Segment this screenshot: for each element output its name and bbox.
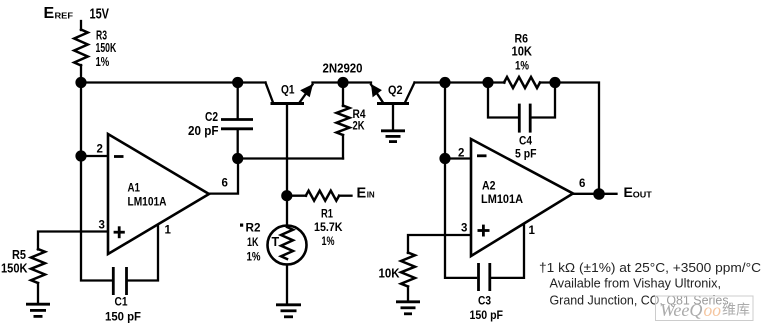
transistor Q2 collector lead [405, 83, 415, 103]
wire R5 to ground [37, 283, 39, 304]
svg-text:A1: A1 [128, 181, 141, 195]
svg-text:E: E [624, 184, 633, 200]
wire thermistor to ground [286, 265, 288, 305]
capacitor C4 right plate [529, 104, 532, 133]
thermistor R2 circle [268, 226, 307, 265]
capacitor C2 bottom plate [221, 127, 253, 130]
wire R1 to E_IN terminal [339, 195, 351, 197]
wire pin2 node down to C1 (crosses pin3 wire) [81, 156, 111, 281]
transistor Q2 emitter lead [371, 85, 383, 103]
op-amp A2 triangle [471, 139, 573, 256]
resistor R4 [337, 106, 350, 136]
svg-text:15V: 15V [90, 7, 110, 23]
wire rail to R6 left node [445, 81, 488, 83]
svg-text:6: 6 [579, 178, 585, 190]
svg-text:LM101A: LM101A [481, 192, 523, 206]
transistor Q1 emitter lead [300, 85, 313, 103]
junction Q2 collector / A2 pin2 rail [439, 77, 450, 88]
svg-text:R2: R2 [246, 221, 261, 235]
capacitor C2 branch wire lower [237, 129, 239, 159]
svg-text:2K: 2K [353, 119, 365, 133]
transistor Q1 emitter arrow [300, 84, 313, 97]
svg-text:150K: 150K [1, 262, 28, 276]
watermark box [656, 296, 754, 321]
wire C4 left branch [488, 83, 518, 118]
svg-text:5 pF: 5 pF [515, 147, 537, 161]
svg-text:E: E [44, 5, 55, 22]
svg-text:C2: C2 [205, 110, 218, 124]
wire A2 pin 3 to 10K resistor [408, 235, 471, 253]
R2 footnote mark [240, 224, 243, 227]
junction output node [593, 188, 605, 200]
transistor Q1 collector lead [266, 83, 274, 103]
A1 minus input sign [114, 155, 124, 158]
wire node to R1 [287, 195, 306, 197]
ground under Q2 base [381, 131, 405, 142]
ground under R5 [26, 304, 50, 316]
resistor 10K [401, 253, 415, 287]
capacitor C1 left plate [112, 267, 115, 295]
junction Q1 base / R1 / R2 input node [281, 190, 292, 201]
svg-text:6: 6 [222, 178, 228, 190]
thermistor R2 element [281, 227, 293, 259]
svg-text:C4: C4 [519, 134, 532, 148]
svg-text:1%: 1% [322, 234, 335, 248]
junction top rail / C2 [232, 77, 243, 88]
op-amp A1 triangle [108, 134, 209, 254]
capacitor C2 top plate [221, 118, 253, 121]
wire A1 pin 2 into op-amp [81, 155, 108, 157]
A2 plus input sign [478, 225, 490, 237]
svg-text:维库: 维库 [722, 303, 750, 319]
capacitor C4 left plate [518, 104, 521, 133]
wire top rail from R3 junction to Q1 collector [81, 81, 266, 83]
svg-text:C3: C3 [478, 294, 491, 308]
wire C4 right branch [532, 83, 555, 118]
svg-text:15.7K: 15.7K [314, 220, 343, 234]
wire center node to Q2 emitter [343, 81, 371, 83]
svg-text:R5: R5 [12, 248, 26, 262]
wire A2 pin2 node down [444, 83, 446, 159]
svg-text:C1: C1 [115, 295, 128, 309]
A1 plus input sign [114, 226, 125, 238]
wire node down to thermistor R2 [286, 196, 288, 226]
wire R3 bottom to summing rail [80, 65, 82, 83]
capacitor C3 left plate [477, 263, 480, 291]
wire E_REF to R3 top [80, 21, 82, 30]
svg-text:WeeQ: WeeQ [660, 300, 703, 320]
svg-text:10K: 10K [512, 45, 533, 59]
ground under 10K [396, 302, 420, 314]
ground under thermistor [276, 305, 301, 317]
transistor Q1 base bar [271, 102, 305, 105]
svg-text:2: 2 [97, 144, 103, 156]
wire R4 bottom to output wire [342, 135, 344, 159]
svg-text:150 pF: 150 pF [105, 310, 141, 324]
svg-text:R6: R6 [515, 32, 529, 46]
resistor R5 [31, 249, 45, 283]
wire A1 output pin 6 up to node [209, 159, 238, 194]
A2 minus input sign [477, 154, 487, 157]
transistor Q2 emitter arrow [371, 84, 382, 97]
svg-text:1: 1 [165, 225, 172, 237]
junction A1 output node [232, 153, 243, 164]
capacitor C1 right plate [125, 267, 128, 295]
wire pin2 node down to C3 (crosses pin3 wire) [445, 159, 476, 278]
wire left rail down to A1 pin 2 [80, 83, 82, 157]
svg-text:REF: REF [55, 12, 74, 21]
svg-text:3: 3 [99, 220, 105, 232]
wire feedback rail to output [555, 83, 599, 195]
junction emitters / R4 node [337, 77, 348, 88]
wire R6 to right node [540, 81, 555, 83]
wire 10K to ground [407, 287, 409, 302]
svg-text:E: E [357, 186, 367, 202]
svg-text:1%: 1% [96, 55, 110, 69]
junction R6/C4 right node [549, 77, 560, 88]
svg-text:2: 2 [458, 148, 464, 160]
wire C1 to pin 1 stub [128, 224, 158, 281]
svg-text:20 pF: 20 pF [188, 124, 219, 138]
wire Q1 base down to input node [286, 104, 288, 196]
wire C3 to pin 1 stub [492, 224, 525, 278]
svg-text:2N2920: 2N2920 [323, 62, 363, 76]
svg-text:1K: 1K [247, 235, 259, 249]
junction R6/C4 left node [482, 77, 493, 88]
svg-text:10K: 10K [379, 267, 400, 281]
junction A1 pin 2 node [75, 150, 86, 161]
svg-text:150 pF: 150 pF [470, 308, 504, 322]
svg-text:Q2: Q2 [388, 83, 403, 97]
watermark text [660, 300, 750, 320]
transistor Q2 base bar [377, 102, 409, 105]
junction A2 pin 2 node [439, 153, 450, 164]
svg-text:IN: IN [367, 191, 375, 200]
resistor R6 [504, 77, 540, 88]
wire A2 output to E_OUT [573, 193, 617, 195]
svg-text:R1: R1 [321, 207, 333, 221]
svg-text:OUT: OUT [633, 191, 652, 200]
svg-text:Q1: Q1 [281, 83, 295, 97]
resistor R1 [306, 191, 339, 201]
svg-text:Available from Vishay Ultronix: Available from Vishay Ultronix, [550, 277, 722, 291]
svg-text:T: T [272, 235, 280, 249]
wire to R6 [488, 81, 505, 83]
svg-text:1%: 1% [247, 250, 261, 264]
resistor R3 [74, 30, 88, 66]
capacitor C3 right plate [488, 263, 491, 291]
wire Q2 base to ground [392, 104, 394, 130]
svg-text:3: 3 [461, 223, 467, 235]
svg-text:A2: A2 [482, 179, 496, 193]
svg-text:LM101A: LM101A [128, 195, 167, 209]
wire Q1 emitter to center node [313, 81, 344, 83]
capacitor C2 branch wire upper [237, 83, 239, 120]
svg-text:1: 1 [529, 225, 536, 237]
svg-text:150K: 150K [96, 41, 117, 55]
wire A1 pin 3 to R5 [38, 232, 108, 250]
wire A2 pin 2 into op-amp [445, 157, 471, 159]
junction R3 / rail [75, 77, 86, 88]
wire Q2 collector to A2 rail [415, 81, 446, 83]
svg-text:oo: oo [704, 300, 722, 320]
svg-text:1%: 1% [515, 59, 529, 73]
wire output node to R4 bottom (crosses Q1 base) [238, 157, 343, 159]
wire node to R4 top [342, 83, 344, 107]
svg-text:†1 kΩ (±1%) at 25°C, +3500 ppm: †1 kΩ (±1%) at 25°C, +3500 ppm/°C [539, 261, 761, 275]
